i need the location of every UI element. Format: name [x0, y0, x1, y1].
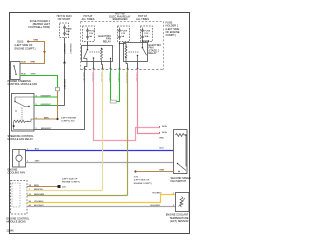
svg-text:RED: RED [160, 138, 165, 140]
svg-text:GRY: GRY [35, 161, 40, 163]
svg-text:BRN/GRN: BRN/GRN [34, 194, 45, 196]
svg-text:MODULE (ECM): MODULE (ECM) [7, 219, 26, 223]
svg-text:NCA: NCA [21, 61, 26, 64]
svg-text:FAN SWITCH: FAN SWITCH [171, 179, 187, 183]
svg-text:22646: 22646 [7, 229, 15, 233]
svg-text:CONTROL MODULE FAN: CONTROL MODULE FAN [8, 82, 38, 86]
svg-text:ENGINE COMPT.): ENGINE COMPT.) [15, 46, 36, 50]
svg-text:30A: 30A [144, 35, 148, 38]
svg-text:FUSE: FUSE [121, 30, 127, 32]
svg-text:FOOTWELL TRIM): FOOTWELL TRIM) [28, 25, 50, 29]
svg-text:GRN/WHT: GRN/WHT [41, 104, 52, 106]
svg-text:COMPT.) X16: COMPT.) X16 [61, 120, 75, 122]
svg-text:BLU: BLU [35, 149, 40, 151]
svg-text:GRN/WHT: GRN/WHT [41, 95, 52, 97]
svg-text:(LEFT SIDE OF: (LEFT SIDE OF [134, 180, 150, 182]
svg-text:BLU: BLU [160, 148, 165, 150]
svg-text:YEL/RED: YEL/RED [34, 201, 44, 203]
svg-text:GRN/WHT: GRN/WHT [63, 44, 65, 55]
svg-text:ENGINE COMPT.): ENGINE COMPT.) [134, 183, 152, 185]
svg-text:COMPT.): COMPT.) [166, 33, 177, 37]
svg-text:RELAY: RELAY [103, 39, 111, 43]
svg-text:COOLING FAN: COOLING FAN [8, 170, 26, 174]
svg-text:ENGINE COMPT.): ENGINE COMPT.) [62, 181, 80, 183]
svg-text:FUSE: FUSE [66, 28, 72, 30]
svg-text:GRN/WHT: GRN/WHT [63, 79, 65, 90]
svg-text:BRN/WHT: BRN/WHT [41, 128, 52, 130]
svg-text:YEL/RED: YEL/RED [152, 192, 162, 194]
svg-text:FUSE: FUSE [144, 30, 150, 32]
svg-text:BRN: BRN [34, 185, 39, 187]
svg-text:(ECT) SENSOR: (ECT) SENSOR [170, 219, 188, 223]
svg-text:NCA: NCA [162, 131, 167, 134]
svg-text:ENERGIZED: ENERGIZED [113, 17, 128, 21]
svg-text:OR START: OR START [58, 17, 71, 21]
svg-text:(LEFT ENGINE: (LEFT ENGINE [61, 117, 77, 119]
svg-text:ALL TIMES: ALL TIMES [136, 17, 149, 21]
svg-text:(LEFT SIDE OF: (LEFT SIDE OF [62, 178, 78, 180]
svg-text:G103: G103 [17, 40, 24, 44]
svg-text:BLK/WHT: BLK/WHT [34, 205, 44, 207]
svg-text:RELAY: RELAY [149, 51, 157, 55]
svg-text:BRN: BRN [31, 62, 36, 64]
svg-text:MODULE FAN RELAY: MODULE FAN RELAY [8, 137, 34, 141]
svg-text:GRN/WHT: GRN/WHT [69, 44, 71, 55]
svg-text:BLK/WHT: BLK/WHT [151, 205, 161, 207]
svg-text:NCA: NCA [162, 125, 167, 128]
svg-text:BRN: BRN [44, 117, 49, 119]
svg-text:BRN/YEL: BRN/YEL [34, 189, 44, 191]
svg-text:ALL TIMES: ALL TIMES [82, 17, 95, 21]
svg-text:FUSE: FUSE [89, 30, 95, 32]
